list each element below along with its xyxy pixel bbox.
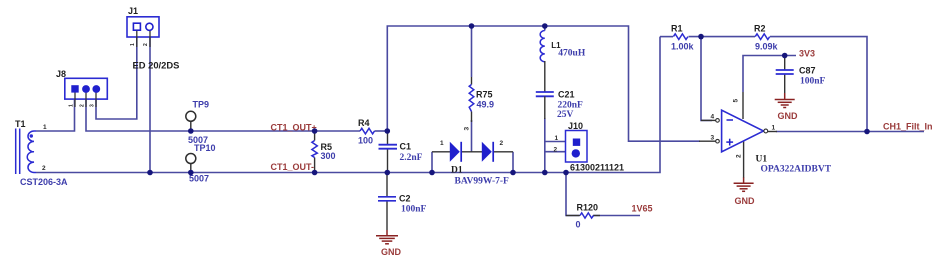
capacitor C21	[536, 61, 583, 120]
junction bottom rail / R5	[312, 170, 318, 176]
wire R1 R2 feedback rail	[660, 37, 867, 132]
svg-text:J1: J1	[128, 6, 138, 16]
svg-text:CT1_OUT+: CT1_OUT+	[271, 122, 317, 132]
svg-text:3: 3	[90, 104, 96, 107]
svg-text:T1: T1	[15, 119, 26, 129]
op-amp U1	[699, 92, 832, 178]
junction bottom rail / J10	[542, 170, 548, 176]
svg-text:3: 3	[711, 134, 715, 141]
transformer T1	[15, 119, 68, 187]
svg-text:C87: C87	[799, 66, 816, 76]
svg-text:R2: R2	[754, 24, 766, 34]
svg-text:2: 2	[143, 43, 149, 46]
svg-text:2: 2	[80, 104, 86, 107]
svg-text:D1: D1	[451, 166, 463, 176]
resistor R1	[671, 24, 695, 52]
junction top wire / R5	[312, 128, 318, 134]
svg-text:ED 20/2DS: ED 20/2DS	[133, 60, 180, 71]
connector J10	[554, 121, 625, 172]
svg-text:1: 1	[555, 135, 559, 142]
svg-text:TP10: TP10	[194, 143, 216, 153]
wire J1 pin2 down to bottom rail	[149, 37, 151, 173]
svg-text:CST206-3A: CST206-3A	[20, 177, 68, 187]
svg-text:J10: J10	[568, 121, 583, 131]
connector J8	[56, 69, 107, 107]
wire bottom rail	[36, 37, 660, 173]
svg-text:1: 1	[772, 125, 776, 132]
resistor R75	[469, 77, 494, 122]
resistor R2	[754, 24, 779, 52]
junction bottom rail / R120	[563, 170, 569, 176]
svg-text:CT1_OUT-: CT1_OUT-	[271, 162, 315, 172]
wire D1 right vertical	[512, 152, 514, 173]
wire R1R2 junction to op-amp pin4	[701, 37, 712, 121]
svg-text:9.09k: 9.09k	[755, 42, 779, 52]
svg-text:220nF: 220nF	[558, 101, 584, 111]
junction bottom rail / D1 right	[510, 170, 516, 176]
capacitor C1	[379, 132, 423, 172]
wire R120 drop and to 1V65	[566, 173, 640, 216]
svg-text:1V65: 1V65	[632, 204, 653, 214]
svg-text:3V3: 3V3	[799, 49, 815, 59]
svg-text:GND: GND	[778, 111, 799, 121]
svg-text:2: 2	[736, 154, 743, 158]
svg-text:470uH: 470uH	[558, 48, 586, 58]
svg-text:1: 1	[130, 43, 136, 46]
junction bottom rail / C1 C2	[385, 170, 391, 176]
wire R75 bottom to D1 center	[471, 120, 473, 152]
wire L1 C21 J10 vertical	[545, 26, 566, 173]
testpoint TP10	[186, 143, 216, 184]
svg-text:C2: C2	[399, 194, 411, 204]
capacitor C87	[776, 56, 826, 100]
svg-text:C1: C1	[400, 142, 412, 152]
junction top rail / R75	[469, 23, 475, 29]
junction bottom rail / D1 left	[429, 170, 435, 176]
wire op-amp output to CH1_Filt_In	[776, 131, 924, 133]
svg-text:25V: 25V	[557, 110, 574, 120]
capacitor C2	[378, 173, 427, 231]
svg-text:C21: C21	[558, 90, 575, 100]
svg-text:3: 3	[464, 127, 471, 131]
wire T1 pin1 to J8 pin1 riser	[36, 100, 75, 131]
svg-text:GND: GND	[735, 196, 756, 206]
svg-text:GND: GND	[381, 247, 402, 257]
connector J1	[127, 6, 179, 71]
svg-text:2: 2	[554, 147, 558, 154]
svg-text:2.2nF: 2.2nF	[400, 153, 423, 163]
svg-text:R75: R75	[476, 90, 493, 100]
junction bottom rail / TP10	[188, 170, 194, 176]
svg-text:4: 4	[711, 114, 715, 121]
ground below C87	[775, 100, 798, 121]
svg-text:OPA322AIDBVT: OPA322AIDBVT	[761, 165, 832, 175]
svg-text:0: 0	[576, 220, 581, 230]
resistor R120	[566, 203, 600, 230]
junction top wire / C1	[385, 128, 391, 134]
junction 3V3 / C87	[782, 53, 788, 59]
svg-text:R120: R120	[577, 203, 599, 213]
svg-text:1: 1	[440, 140, 444, 147]
wire J8 pin3 to J1 pin1	[96, 37, 137, 119]
svg-text:1: 1	[69, 104, 75, 107]
svg-text:R4: R4	[358, 118, 370, 128]
resistor R5	[312, 131, 336, 173]
junction top wire / TP9	[188, 128, 194, 134]
testpoint TP9	[186, 100, 209, 146]
wire op-amp pin5 to 3V3	[743, 56, 796, 93]
wire R75 top	[471, 26, 473, 77]
svg-text:BAV99W-7-F: BAV99W-7-F	[455, 177, 510, 187]
svg-text:100: 100	[358, 136, 373, 146]
junction top rail / L1	[542, 23, 548, 29]
svg-text:J8: J8	[56, 69, 66, 79]
ground below U1	[734, 178, 755, 206]
svg-text:R1: R1	[671, 24, 683, 34]
wire C1 vertical and top rail	[387, 26, 700, 141]
ground below C2	[376, 230, 402, 257]
svg-text:1: 1	[43, 124, 47, 131]
svg-text:100nF: 100nF	[401, 205, 427, 215]
resistor R4	[358, 118, 375, 146]
svg-text:TP9: TP9	[193, 100, 210, 110]
inductor L1	[540, 30, 586, 61]
svg-text:2: 2	[500, 140, 504, 147]
junction bottom rail / J1 pin2	[147, 170, 153, 176]
wire J8 pin2 down and top rail to R4/C1	[86, 100, 387, 131]
svg-text:61300211121: 61300211121	[570, 162, 624, 172]
svg-text:CH1_Filt_In: CH1_Filt_In	[883, 122, 933, 132]
wire D1 left vertical	[431, 152, 433, 173]
junction output / feedback	[864, 129, 870, 135]
svg-text:1.00k: 1.00k	[671, 42, 695, 52]
junction R1 R2 node	[698, 34, 704, 40]
svg-text:100nF: 100nF	[800, 77, 826, 87]
dual diode D1	[432, 127, 513, 187]
svg-text:5: 5	[733, 99, 740, 103]
svg-text:U1: U1	[756, 155, 768, 165]
svg-text:49.9: 49.9	[477, 100, 495, 110]
svg-text:300: 300	[321, 151, 336, 161]
svg-text:2: 2	[42, 165, 46, 172]
